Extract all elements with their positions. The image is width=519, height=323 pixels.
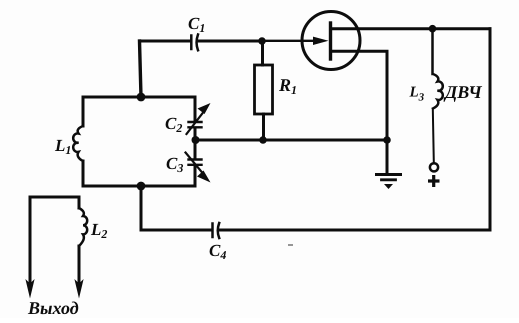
ground — [377, 140, 401, 189]
output coupling bracket wires — [30, 197, 79, 283]
node R1 bottom — [259, 136, 267, 144]
label Vyhod (output) — [27, 298, 79, 318]
label L2 — [90, 220, 107, 241]
inductor L3 — [433, 29, 443, 162]
node tank top — [137, 93, 146, 102]
label DVCh net — [443, 82, 482, 102]
wire tank bottom to C4 — [141, 186, 211, 230]
transistor U1 bar — [329, 23, 332, 59]
wire gate lead with arrow into transistor — [262, 37, 329, 45]
node C2/C3 junction — [192, 136, 200, 144]
label L3 — [409, 85, 425, 104]
svg-text:Выход: Выход — [27, 298, 79, 318]
node tank bottom — [137, 182, 146, 191]
wire right rail — [489, 29, 492, 230]
wire C4 to right rail — [220, 229, 490, 232]
resistor R1 — [255, 41, 273, 140]
arrow output right — [74, 279, 83, 299]
capacitor C4 — [213, 223, 220, 238]
node ground junction — [383, 136, 391, 144]
capacitor C2 (variable) — [187, 103, 211, 134]
node L3 top — [429, 25, 437, 33]
label C3 — [166, 154, 183, 175]
inductor L1 — [73, 126, 83, 161]
wire source lead down to ground node — [331, 51, 387, 140]
label L1 — [54, 136, 71, 157]
arrow output left — [25, 279, 34, 299]
wire C1 to gate node — [199, 40, 262, 43]
svg-text:ДВЧ: ДВЧ — [443, 82, 482, 102]
capacitor C1 — [191, 35, 198, 51]
label R1 — [278, 75, 297, 97]
label plus terminal — [428, 175, 440, 187]
wire mid rail C2C3 junction to ground node — [196, 139, 388, 142]
label C4 — [209, 241, 226, 262]
node A (C1/R1/gate junction) — [258, 37, 266, 45]
capacitor C3 (variable) — [186, 153, 211, 183]
tank loop wires (L1/C2/C3 frame) — [83, 97, 195, 186]
wire top from C1 left corner down to tank top — [140, 41, 191, 97]
scan speck — [288, 244, 293, 246]
transistor U1 circle — [302, 12, 360, 70]
wire drain lead to top-right rail — [331, 27, 490, 30]
label C1 — [188, 14, 205, 35]
inductor L2 — [79, 208, 87, 246]
terminal + (open circle) — [430, 163, 438, 171]
label C2 — [165, 114, 182, 135]
